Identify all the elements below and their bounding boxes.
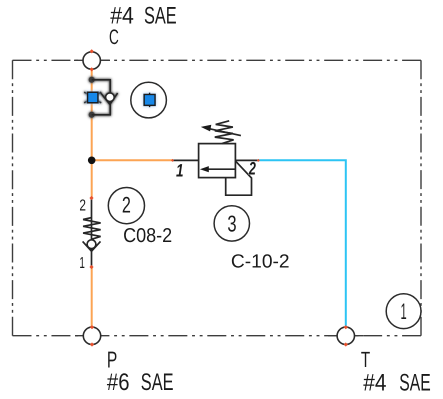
relief valve port 2 lead bbox=[235, 159, 258, 161]
port P bottom marker bbox=[90, 342, 94, 346]
port T top marker bbox=[344, 325, 348, 329]
relief valve port 1 marker bbox=[171, 159, 174, 162]
svg-text:2: 2 bbox=[122, 193, 131, 218]
check valve port marker 1 bbox=[89, 265, 93, 269]
junction dot top bbox=[89, 77, 95, 83]
svg-text:SAE: SAE bbox=[141, 369, 174, 396]
check valve body wire bbox=[91, 198, 93, 267]
check valve C08-2 bbox=[83, 198, 101, 267]
relief valve pilot loop bbox=[226, 161, 252, 195]
svg-text:2: 2 bbox=[79, 198, 86, 215]
relief valve adjust arrow bbox=[208, 128, 241, 135]
port T bbox=[337, 327, 354, 344]
wire junction to relief valve port 1 (orange horizontal) bbox=[92, 159, 173, 161]
relief valve port 1 lead bbox=[173, 159, 199, 161]
orifice with bypass check (selected component, glow) bbox=[84, 77, 117, 118]
relief valve body bbox=[199, 144, 236, 178]
bypass check seat bbox=[101, 93, 118, 105]
balloon 1 bbox=[386, 294, 421, 329]
port T border stubs bbox=[328, 335, 363, 337]
port C top marker bbox=[90, 49, 94, 53]
enclosure border (phantom dash-dot-dot rectangle) bbox=[13, 60, 422, 335]
wire C to junction (orange vertical upper) bbox=[91, 69, 93, 160]
check valve ball bbox=[87, 240, 96, 249]
relief valve flow arrow bbox=[204, 168, 235, 170]
selection grip square on orifice bbox=[88, 92, 99, 103]
check valve seat bbox=[83, 241, 101, 251]
svg-text:C08-2: C08-2 bbox=[123, 225, 172, 247]
port C bottom marker bbox=[90, 67, 94, 71]
port C border stubs bbox=[74, 59, 110, 61]
svg-text:SAE: SAE bbox=[144, 3, 177, 30]
wire P to junction (orange vertical lower) bbox=[91, 267, 93, 327]
svg-text:#4: #4 bbox=[363, 369, 386, 396]
junction dot bottom bbox=[89, 112, 95, 118]
wire junction to check valve (orange vertical mid) bbox=[91, 160, 93, 198]
port P border stubs bbox=[75, 335, 101, 337]
port P bbox=[83, 327, 100, 344]
svg-text:1: 1 bbox=[401, 299, 407, 324]
orifice arc right bbox=[96, 92, 102, 103]
relief valve C-10-2 bbox=[173, 121, 259, 195]
check valve spring bbox=[83, 218, 101, 240]
svg-text:1: 1 bbox=[79, 255, 85, 272]
relief valve spring bbox=[215, 121, 234, 144]
port T bottom marker bbox=[344, 342, 348, 346]
orifice arc left bbox=[84, 92, 90, 103]
junction node at P branch bbox=[88, 157, 96, 165]
bypass check ball bbox=[106, 93, 115, 102]
balloon with grip square bbox=[131, 82, 167, 118]
svg-text:#6: #6 bbox=[107, 369, 130, 396]
svg-text:1: 1 bbox=[176, 160, 184, 180]
relief valve port 2 marker bbox=[257, 159, 260, 162]
balloon 2 bbox=[108, 188, 144, 224]
svg-text:2: 2 bbox=[248, 158, 256, 178]
check valve port marker 2 bbox=[89, 196, 93, 200]
svg-text:C-10-2: C-10-2 bbox=[231, 252, 290, 273]
bypass wire bbox=[92, 80, 111, 115]
svg-text:SAE: SAE bbox=[399, 369, 430, 396]
port P top marker bbox=[90, 325, 94, 329]
svg-text:C: C bbox=[109, 26, 119, 49]
port C bbox=[83, 52, 100, 69]
svg-text:3: 3 bbox=[227, 210, 236, 236]
balloon 3 bbox=[214, 206, 249, 241]
wire relief valve port 2 to T (cyan) bbox=[258, 160, 345, 327]
